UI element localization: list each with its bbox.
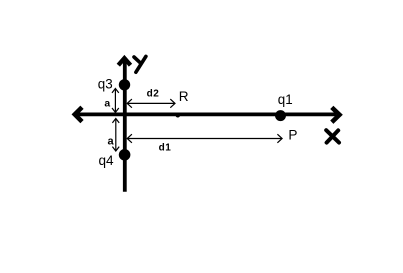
x-axis left arrowhead bbox=[75, 107, 82, 121]
svg-text:q1: q1 bbox=[278, 92, 293, 107]
charge q1 dot bbox=[275, 110, 286, 121]
y-axis top arrowhead bbox=[118, 58, 130, 65]
x axis label (handwritten x) bbox=[326, 130, 339, 142]
point R dot on x-axis bbox=[176, 113, 181, 118]
x-axis right arrowhead bbox=[332, 107, 340, 122]
charge q4 dot bbox=[119, 149, 131, 161]
svg-text:d2: d2 bbox=[147, 89, 160, 100]
dimension arrow d2 (y-axis to R) bbox=[127, 99, 175, 108]
dimension arrow a (upper, between q3 and x-axis) bbox=[112, 89, 119, 113]
charge q3 dot bbox=[119, 79, 130, 90]
y axis label (handwritten y) bbox=[134, 56, 146, 72]
svg-text:P: P bbox=[288, 127, 297, 142]
svg-text:d1: d1 bbox=[159, 142, 172, 153]
y-axis line bbox=[123, 59, 127, 192]
x-axis line bbox=[76, 113, 336, 117]
dimension arrow d1 (y-axis to P) bbox=[127, 134, 282, 143]
svg-text:a: a bbox=[104, 98, 110, 109]
svg-text:a: a bbox=[108, 136, 115, 148]
svg-text:q3: q3 bbox=[98, 76, 113, 91]
dimension arrow a (lower, between x-axis and q4) bbox=[112, 119, 119, 152]
svg-text:R: R bbox=[179, 89, 189, 104]
svg-text:q4: q4 bbox=[99, 153, 115, 168]
